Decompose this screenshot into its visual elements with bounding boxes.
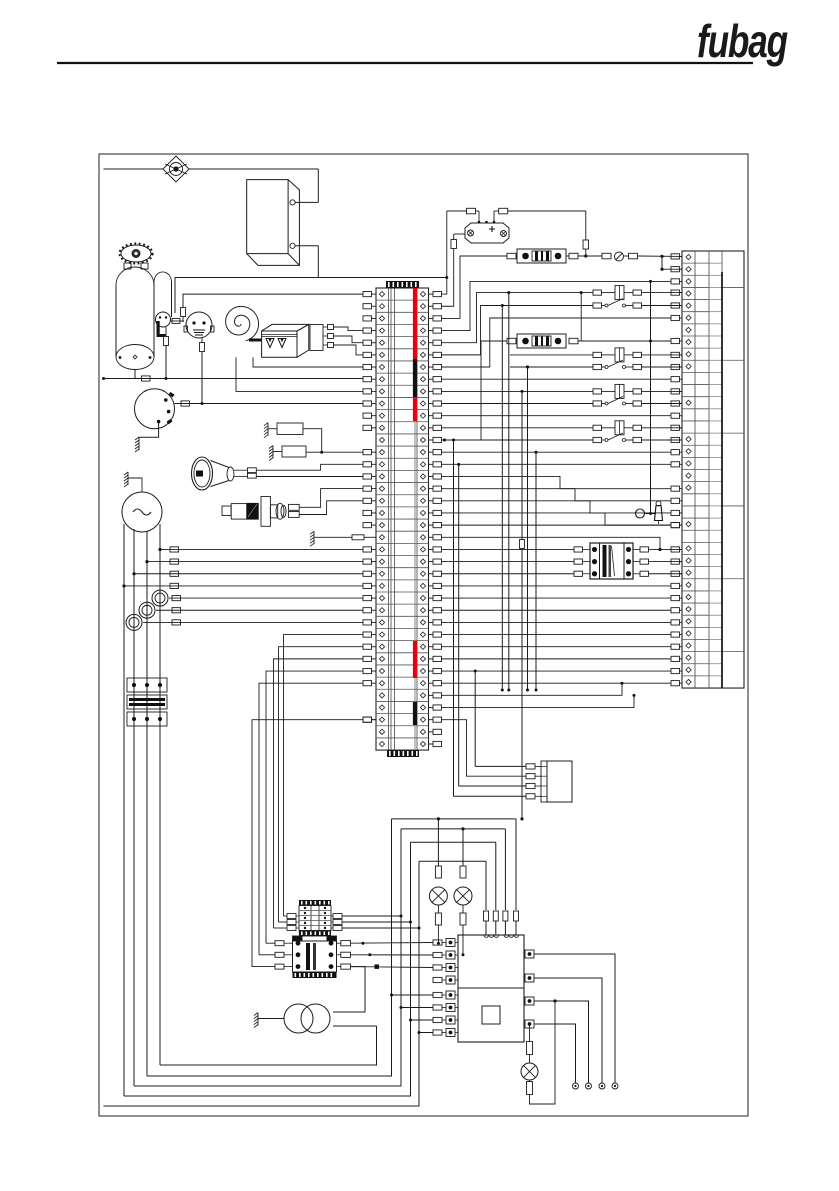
- svg-text:fubag: fubag: [697, 15, 788, 67]
